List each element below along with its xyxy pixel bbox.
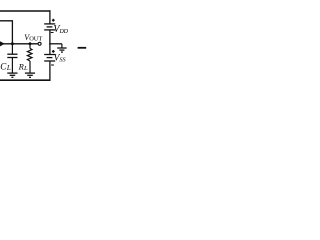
battery VDD plus sign bbox=[52, 19, 55, 22]
ground CL bbox=[7, 73, 17, 77]
battery VSS bbox=[44, 55, 55, 62]
svg-text:VOUT: VOUT bbox=[24, 33, 42, 42]
battery VDD minus sign bbox=[51, 32, 54, 34]
wire CL top lead bbox=[11, 44, 13, 54]
wire RL top lead bbox=[29, 44, 31, 49]
resistor RL bbox=[27, 48, 32, 61]
wire VDD bottom lead bbox=[49, 30, 51, 44]
battery VSS minus sign bbox=[51, 64, 54, 66]
node junction dot CL bbox=[11, 42, 14, 45]
arrowhead input bbox=[0, 41, 5, 46]
wire ground branch bbox=[49, 43, 62, 45]
battery VDD bbox=[44, 24, 55, 30]
wire inner feedback top bbox=[0, 21, 12, 44]
wire VSS top lead bbox=[49, 44, 51, 54]
wire VDD top lead bbox=[49, 10, 51, 23]
dash separator bbox=[78, 47, 87, 49]
node junction dot RL bbox=[29, 42, 32, 45]
ground RL bbox=[25, 73, 35, 77]
capacitor CL bbox=[7, 54, 17, 57]
svg-text:VSS: VSS bbox=[54, 54, 66, 64]
svg-text:RL: RL bbox=[18, 61, 28, 72]
wire RL bottom lead bbox=[29, 61, 31, 73]
terminal vOUT circle bbox=[38, 42, 41, 45]
svg-text:CL: CL bbox=[0, 61, 11, 72]
wire CL bottom lead bbox=[11, 58, 13, 74]
battery VSS plus sign bbox=[52, 50, 55, 53]
wire output bbox=[4, 43, 39, 45]
wire VSS bottom lead bbox=[49, 61, 51, 81]
wire ground stub bbox=[61, 44, 63, 48]
wire top rail bbox=[0, 10, 50, 12]
svg-text:VDD: VDD bbox=[53, 24, 68, 35]
wire bottom rail bbox=[0, 79, 51, 81]
ground supply midpoint bbox=[57, 48, 66, 52]
